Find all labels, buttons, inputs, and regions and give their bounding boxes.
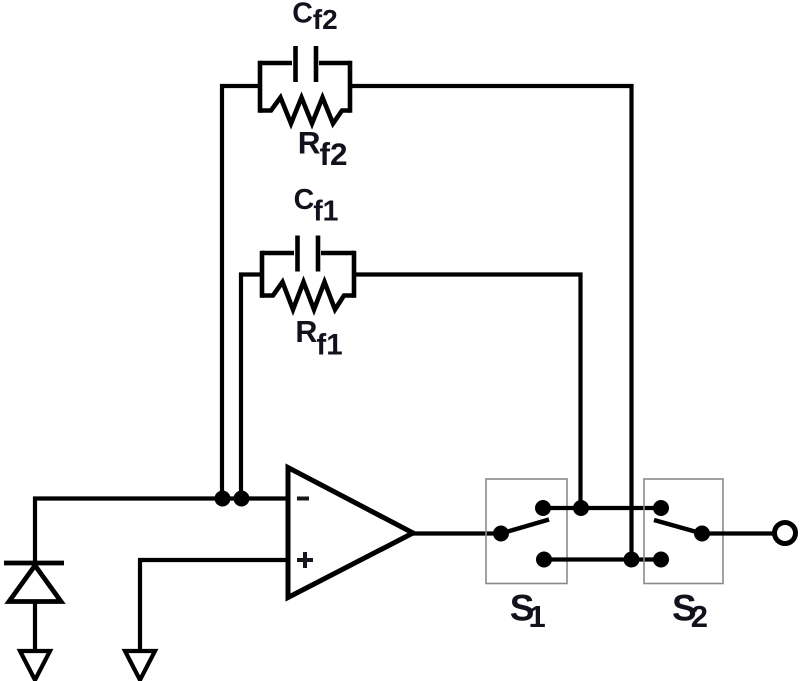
switch S1 [486,479,567,584]
resistor Rf1 [262,282,354,310]
wire S2 pole to output terminal [702,531,773,535]
svg-text:Cf2: Cf2 [292,0,338,35]
wire from Cf2 left to inverting node [222,86,260,499]
wire photodiode anode to ground [33,602,37,652]
switch S2 [644,479,723,584]
svg-text:Cf1: Cf1 [294,184,339,228]
svg-text:S1: S1 [510,588,546,635]
svg-text:Rf2: Rf2 [298,124,348,172]
output terminal [775,523,796,544]
resistor Rf2 [260,98,350,124]
ground under non-inverting input [125,651,155,680]
wire from Cf1 left to inverting node [241,275,262,499]
wire from Cf1 right to S1-S2 upper wire [354,275,581,509]
wire S1 upper contact to S2 upper contact [543,506,661,510]
ground under photodiode [20,651,50,680]
node junction Cf2 feedback on lower wire [624,552,640,568]
wire from Cf2 right to S2 lower contact [350,86,632,560]
wire right bar of Cf1 loop [352,251,357,298]
node junction Cf1 drop on inverting input [234,491,250,507]
capacitor Cf2 [260,46,350,82]
wire non-inverting input to ground [140,560,288,651]
capacitor Cf1 [262,236,354,272]
svg-text:Rf1: Rf1 [295,315,342,362]
wire right bar of Cf2 loop [348,61,353,113]
wire left bar of Cf2 loop [258,61,263,113]
wire S1 lower contact to S2 lower contact [544,557,661,561]
svg-text:S2: S2 [672,588,708,635]
node junction Cf1 feedback on upper wire [573,500,589,516]
node junction Cf2 drop on inverting input [215,491,231,507]
photodiode D1 [4,563,64,602]
wire left bar of Cf1 loop [260,251,265,298]
wire inverting input from photodiode [35,499,288,564]
op-amp U1 [288,468,413,598]
wire op-amp output to S1 pole [413,531,501,535]
